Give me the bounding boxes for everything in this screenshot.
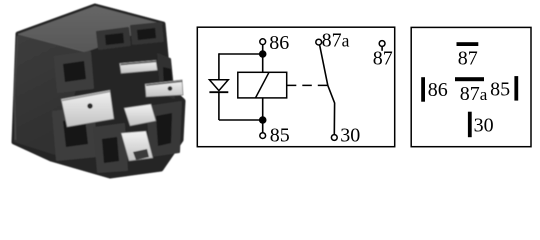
- relay body silhouette: [14, 6, 183, 176]
- svg-text:86: 86: [269, 32, 289, 54]
- terminal 85: [260, 124, 290, 146]
- wire: junction to diode branch (horizontal): [219, 53, 263, 55]
- schematic frame box: [197, 27, 394, 147]
- base recess slots: [63, 28, 173, 163]
- terminal 87: [373, 41, 393, 70]
- wire: 86 circle down through junction to coil top: [262, 45, 264, 73]
- relay left face: [14, 34, 86, 156]
- base molding towers: [53, 23, 181, 172]
- svg-text:87a: 87a: [322, 29, 350, 51]
- wire: coil bottom through junction to 85: [262, 98, 264, 133]
- terminal 86: [260, 32, 289, 54]
- pin P3 (86): [61, 90, 114, 127]
- pin P2 (85): [145, 80, 183, 97]
- svg-text:87: 87: [373, 48, 393, 70]
- wire: diode branch to bottom junction (horizontal): [219, 119, 263, 121]
- dashed actuation link: [287, 84, 328, 86]
- pin P1 (87): [120, 60, 158, 73]
- svg-text:85: 85: [490, 79, 510, 101]
- left edge sheen: [15, 36, 18, 140]
- pin 86 blade (left): [421, 77, 448, 102]
- relay photo: [14, 6, 183, 176]
- left face top edge highlight: [18, 34, 86, 52]
- pin 85 blade (right): [490, 76, 518, 101]
- wire: diode branch vertical upper: [218, 53, 220, 80]
- wire: diode branch vertical lower: [218, 92, 220, 120]
- svg-text:87: 87: [458, 47, 478, 69]
- pin 87 blade (top): [457, 42, 479, 69]
- terminal 87a: [316, 29, 350, 51]
- pin 30 blade (bottom): [468, 112, 494, 138]
- junction node top: [259, 50, 267, 58]
- svg-text:87a: 87a: [460, 83, 488, 105]
- pin P5 (30): [121, 131, 153, 161]
- junction node bottom: [259, 116, 267, 124]
- relay top face: [18, 6, 163, 52]
- pin P4 (87a): [124, 104, 156, 126]
- svg-text:30: 30: [340, 125, 360, 147]
- terminal 30: [331, 125, 360, 147]
- svg-text:86: 86: [428, 79, 448, 101]
- relay coil K1: [238, 72, 287, 98]
- svg-text:30: 30: [474, 114, 494, 136]
- pin 87a blade (center): [455, 77, 488, 105]
- switch arm: [320, 45, 335, 135]
- svg-text:85: 85: [270, 124, 290, 146]
- pin layout box: [411, 27, 531, 146]
- diode D1: [209, 80, 228, 93]
